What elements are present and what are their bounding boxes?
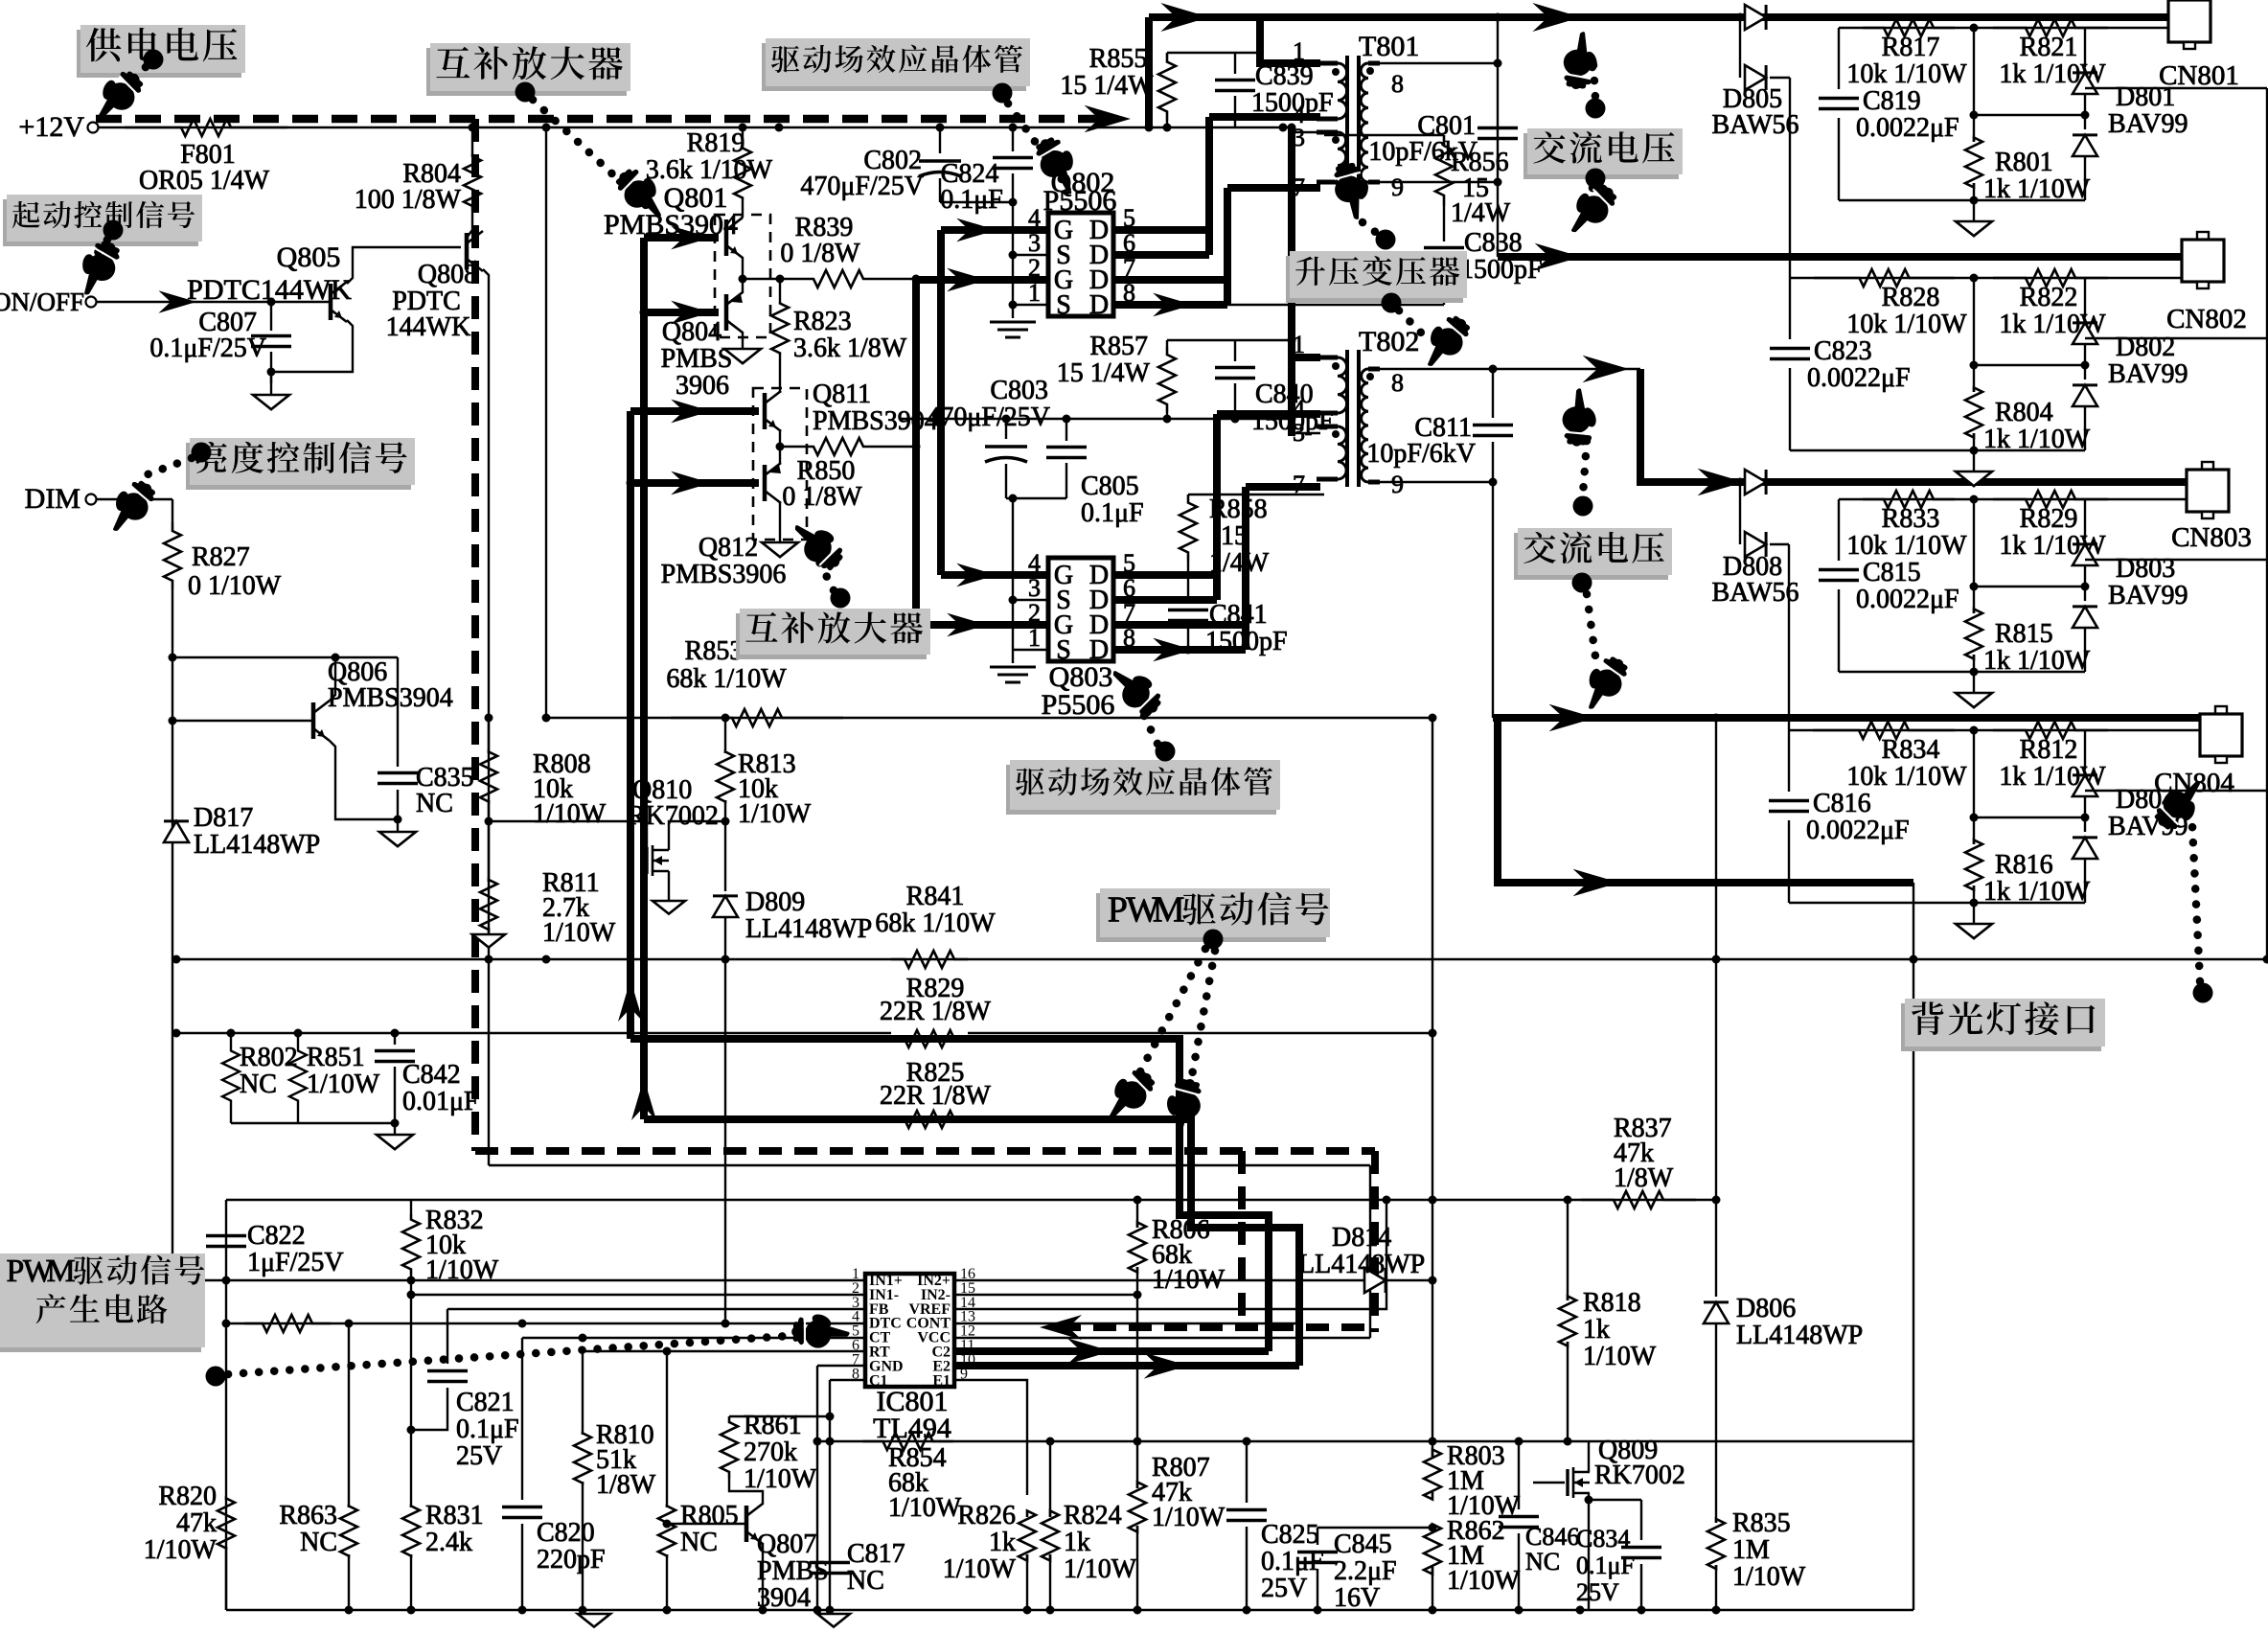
resistor R858 (1187, 494, 1189, 498)
resistor R833 (1863, 491, 1955, 508)
wire Q805 emitter (271, 320, 353, 372)
wire VCC feed horizontal (489, 1164, 1370, 1166)
svg-text:R817: R817 (1882, 33, 1940, 62)
resistor R807 (1136, 1295, 1138, 1488)
wire DIM column (172, 589, 173, 1280)
wire Q806 base (172, 720, 313, 722)
wire pin14 VREF (954, 1200, 1386, 1309)
svg-text:NC: NC (847, 1566, 884, 1596)
svg-text:R857: R857 (1089, 332, 1148, 361)
wire CN802 feed (1498, 253, 2182, 261)
capacitor C820 (521, 1338, 523, 1500)
wire pin5 CT (522, 1337, 865, 1339)
wire Q805 collector (347, 247, 461, 284)
svg-text:M: M (47, 1253, 76, 1289)
hand 8 (786, 510, 853, 577)
svg-text:C821: C821 (456, 1388, 515, 1417)
svg-text:CN802: CN802 (2166, 304, 2247, 334)
node leader dot 2 (515, 82, 536, 103)
svg-text:Q807: Q807 (757, 1529, 816, 1559)
wire x1791 up (1715, 718, 1717, 1200)
svg-text:Q808: Q808 (418, 260, 477, 289)
transistor Q811 (763, 393, 767, 429)
diode D808 upper (1745, 470, 1766, 494)
node sense CN801 (1970, 24, 1979, 33)
wire +12V dashed bus arrow (1085, 105, 1131, 133)
resistor R861 (721, 1416, 738, 1478)
svg-text:PMBS3906: PMBS3906 (661, 560, 787, 589)
wire rail y1078 (176, 1032, 1432, 1034)
transistor Q807 (745, 1506, 749, 1542)
transistor Q810 RK7002 (645, 847, 648, 874)
svg-text:R820: R820 (158, 1482, 217, 1511)
svg-text:R815: R815 (1995, 619, 2053, 649)
node Q806 col wire (172, 656, 398, 658)
svg-text:S: S (1056, 290, 1071, 320)
capacitor C834 (1640, 1500, 1642, 1540)
capacitor C842 (394, 1033, 396, 1045)
svg-text:BAV99: BAV99 (2108, 359, 2188, 389)
ground Q803 S (990, 666, 1036, 669)
wire pin16 IN2+ (954, 1279, 1432, 1281)
svg-text:1/10W: 1/10W (1064, 1554, 1137, 1584)
resistor R829 (1993, 491, 2108, 508)
resistor R824 (1049, 1441, 1051, 1517)
wire exit CN804 (2085, 790, 2267, 792)
leader 7a (1593, 65, 1595, 98)
resistor R820 (225, 1323, 227, 1500)
svg-text:PMBS3904: PMBS3904 (328, 683, 453, 713)
hand 11a (1560, 387, 1601, 448)
svg-text:R863: R863 (279, 1501, 337, 1530)
svg-text:R833: R833 (1882, 504, 1940, 534)
wire drive bus A (640, 238, 648, 1119)
label 互补放大器 mid (736, 613, 927, 659)
hand 2 (609, 160, 676, 227)
svg-text:P: P (7, 1253, 25, 1289)
resistor R839 (800, 270, 877, 287)
svg-text:C803: C803 (990, 376, 1048, 405)
wire S ground column (1012, 202, 1014, 318)
svg-text:LL4148WP: LL4148WP (1298, 1250, 1425, 1279)
wire C803 C805 bottom (1006, 497, 1066, 499)
wire drive col G2 (912, 280, 920, 625)
svg-text:0.01μF: 0.01μF (402, 1087, 479, 1116)
svg-text:D802: D802 (2116, 333, 2175, 362)
svg-text:R801: R801 (1995, 148, 2053, 177)
node sense CN803 (1970, 495, 1979, 504)
svg-text:0 1/8W: 0 1/8W (782, 482, 862, 512)
transformer T802 primary lower (1338, 426, 1346, 479)
wire drive thick right1 (630, 1039, 1269, 1351)
transistor Q806 (311, 702, 316, 739)
svg-text:R861: R861 (744, 1411, 802, 1440)
svg-text:R822: R822 (2020, 283, 2078, 312)
label 交流电压 low (1514, 533, 1668, 580)
capacitor C835 (397, 657, 399, 767)
svg-text:15: 15 (1221, 521, 1248, 551)
hand 7b (1556, 175, 1623, 242)
svg-text:D814: D814 (1332, 1223, 1391, 1253)
diode D805 lower (1745, 65, 1766, 90)
svg-text:1k: 1k (1583, 1315, 1610, 1345)
svg-text:R823: R823 (793, 307, 852, 336)
resistor R822 (1993, 269, 2108, 287)
capacitor C805 (1065, 419, 1067, 441)
resistor R817 (1863, 19, 1955, 36)
node leader dot 6a (1376, 230, 1396, 250)
wire D805 out col (1789, 78, 1791, 278)
wire D808 anodes (1739, 482, 1741, 544)
wire y1380 left (225, 1322, 227, 1324)
label 升压变压器 (1286, 256, 1463, 303)
diode D803 lower (2084, 565, 2086, 601)
resistor R801 (1973, 28, 1975, 142)
ic Q803 P5506 box (1048, 558, 1113, 661)
resistor R819 (742, 127, 744, 147)
arrow drive B up (618, 979, 643, 1022)
wire rail y749 (546, 717, 1432, 719)
transistor Q804 (724, 294, 729, 331)
transformer T801 secondary (1361, 63, 1368, 182)
svg-text:9: 9 (1391, 173, 1404, 201)
wire mid CN803 (1974, 586, 2085, 587)
svg-text:C805: C805 (1081, 471, 1139, 501)
svg-text:1M: 1M (1732, 1535, 1770, 1565)
svg-text:0.0022μF: 0.0022μF (1807, 363, 1911, 393)
svg-text:0.1μF/25V: 0.1μF/25V (149, 333, 266, 363)
svg-text:Q804: Q804 (662, 317, 722, 347)
patch R825 (891, 1112, 968, 1127)
box Q811/Q812 dashed (753, 388, 807, 540)
node leader dot 12 (2193, 983, 2213, 1003)
ground rail 2 (817, 1614, 850, 1627)
wire exit CN801 (2085, 87, 2267, 89)
capacitor C811 (1492, 369, 1494, 418)
hand 10b (1157, 1074, 1206, 1139)
diode D801 upper (2084, 28, 2086, 67)
wire Q804 collector (742, 332, 744, 349)
svg-text:1/10W: 1/10W (144, 1535, 218, 1565)
hand 6a (1328, 158, 1378, 223)
wire Q810 source (668, 871, 670, 901)
svg-text:1/10W: 1/10W (533, 799, 607, 829)
resistor R837 (1581, 1191, 1696, 1208)
svg-text:1/8W: 1/8W (596, 1470, 656, 1500)
wire Q801-Q804 emitters (742, 257, 744, 293)
wire C842 tie (231, 1122, 395, 1124)
svg-text:T802: T802 (1359, 326, 1419, 357)
svg-text:OR05 1/4W: OR05 1/4W (139, 166, 270, 195)
wire x570 column (545, 127, 547, 718)
svg-text:R841: R841 (906, 882, 965, 911)
wire ON/OFF (96, 301, 331, 303)
label PWM驱动信号 (1096, 893, 1326, 942)
wire pin6 RT (583, 1350, 865, 1352)
svg-text:R805: R805 (680, 1501, 739, 1530)
wire Q803 pin4 in (941, 571, 1048, 579)
wire CN803 feed (1640, 369, 2187, 482)
svg-text:25V: 25V (456, 1441, 502, 1471)
resistor R863 (348, 1323, 350, 1507)
svg-text:3906: 3906 (676, 371, 729, 401)
wire Q807 emitter (762, 1543, 764, 1610)
wire sense CN804 (1789, 729, 2200, 731)
svg-text:NC: NC (240, 1069, 277, 1099)
wire Q808 emitter (483, 269, 489, 1165)
resistor R816 (1973, 730, 1975, 844)
wire C840 bottom rail (901, 418, 1292, 420)
node leader dot 11b (1572, 573, 1592, 593)
wire D808 out col (1788, 544, 1790, 730)
hand 1 (82, 62, 149, 129)
svg-text:470μF/25V: 470μF/25V (800, 172, 924, 201)
wire pin8 C1 (830, 1379, 865, 1381)
svg-text:R819: R819 (687, 128, 745, 158)
wire pin15 IN2- (954, 1294, 1137, 1296)
resistor R850 (800, 438, 877, 455)
leader 9 (1136, 700, 1157, 744)
capacitor C841 (1168, 609, 1208, 612)
resistor RDTC (244, 1315, 331, 1332)
resistor R803 (1424, 1450, 1441, 1500)
svg-text:68k 1/10W: 68k 1/10W (666, 664, 787, 694)
svg-text:R834: R834 (1882, 735, 1940, 765)
transistor Q805 (329, 284, 333, 320)
svg-text:P5506: P5506 (1043, 185, 1117, 217)
svg-text:C834: C834 (1576, 1525, 1630, 1552)
hand 12 (2148, 772, 2215, 839)
wire sense CN803 (1839, 498, 2187, 500)
svg-text:1/10W: 1/10W (738, 799, 812, 829)
svg-text:10k 1/10W: 10k 1/10W (1846, 59, 1967, 89)
wire T802 pin3 stub (1292, 432, 1320, 434)
leader 12 (2192, 826, 2200, 981)
svg-text:LL4148WP: LL4148WP (745, 914, 872, 944)
wire mid CN802 (1974, 364, 2085, 366)
transformer T801 core (1345, 56, 1349, 190)
svg-text:R804: R804 (1995, 398, 2053, 427)
wire box left x236 (225, 1200, 227, 1610)
ground CN801 (1973, 200, 1975, 221)
svg-text:1/10W: 1/10W (888, 1493, 962, 1523)
wire cap bottoms (940, 201, 1013, 203)
svg-text:PMBS: PMBS (661, 344, 733, 374)
ic Q802 P5506 box (1048, 213, 1113, 316)
resistor R810 (582, 1351, 584, 1435)
arrow T802 top out (1583, 356, 1629, 383)
svg-text:BAV99: BAV99 (2108, 581, 2188, 610)
svg-text:10pF/6kV: 10pF/6kV (1366, 439, 1476, 469)
wire Q803 D56 out (1113, 571, 1217, 579)
ground CN803 (1973, 672, 1975, 693)
ground Q802 S (990, 321, 1036, 324)
resistor R834 (1813, 722, 1955, 739)
connector CN802 (2197, 232, 2209, 240)
label 互补放大器 top (426, 48, 627, 96)
svg-text:CN801: CN801 (2159, 60, 2239, 91)
svg-text:1k: 1k (989, 1528, 1016, 1557)
wire x1495 column (1432, 718, 1433, 1457)
svg-text:PDTC144WK: PDTC144WK (187, 274, 352, 306)
leader 3 (1008, 103, 1064, 182)
capacitor C819 (1838, 28, 1840, 89)
svg-text:1/10W: 1/10W (1152, 1503, 1226, 1532)
svg-text:BAV99: BAV99 (2108, 109, 2188, 139)
patch R829 (891, 1031, 968, 1046)
box Q801/Q804 dashed (715, 215, 770, 337)
svg-text:TL494: TL494 (873, 1413, 951, 1444)
svg-text:0.0022μF: 0.0022μF (1856, 585, 1959, 614)
wire pin1 IN1+ (176, 1279, 865, 1281)
wire rail y1001 (176, 958, 2267, 960)
wire pin10 E2 thick (954, 1362, 1299, 1369)
capacitor C824 (1012, 127, 1014, 151)
ground Q812 (762, 542, 798, 557)
svg-text:0.1μF: 0.1μF (940, 185, 1003, 215)
svg-text:RK7002: RK7002 (1594, 1460, 1685, 1490)
resistor R808 (488, 718, 490, 753)
node leader dot 6b (1382, 293, 1402, 313)
svg-text:144WK: 144WK (386, 312, 471, 342)
svg-text:BAW56: BAW56 (1711, 110, 1798, 140)
diode D801 lower (2084, 94, 2086, 129)
svg-text:C846: C846 (1525, 1523, 1579, 1551)
node leader dot 5 (192, 443, 212, 463)
svg-text:0.1μF: 0.1μF (456, 1414, 519, 1444)
svg-text:1/8W: 1/8W (1614, 1163, 1674, 1193)
resistor R829b (891, 1030, 968, 1047)
ground C842 (394, 1123, 396, 1135)
wire Q804 base stub (644, 309, 719, 316)
ground Q804 (724, 349, 761, 363)
leader 11a (1583, 441, 1587, 494)
resistor R854 (862, 1433, 953, 1450)
hand 10a (1094, 1061, 1161, 1128)
node leader dot 13 (206, 1367, 226, 1387)
wire Q802 pin1 (1013, 304, 1048, 306)
svg-text:C819: C819 (1863, 86, 1921, 116)
label PWM驱动信号产生电路 (0, 1258, 201, 1352)
svg-text:D: D (1089, 290, 1109, 320)
node leader dot 8 (831, 588, 851, 609)
wire Q810 gate (489, 820, 647, 822)
svg-text:R826: R826 (957, 1501, 1016, 1530)
svg-text:P: P (1108, 890, 1128, 931)
resistor R804 (1973, 278, 1975, 392)
svg-text:9: 9 (1391, 471, 1404, 498)
hand 3 (1029, 129, 1089, 197)
terminal +12V (88, 123, 99, 133)
wire exit CN802 (2085, 337, 2267, 339)
svg-text:15 1/4W: 15 1/4W (1060, 71, 1154, 101)
wire Q803 D78 out (1113, 621, 1246, 629)
wire dashed branch vertical (471, 119, 479, 1151)
leader 10b (1188, 951, 1215, 1096)
svg-text:R812: R812 (2020, 735, 2078, 765)
wire mid CN801 (1974, 114, 2085, 116)
wire right col CN802 feed (1497, 17, 1499, 257)
svg-text:R835: R835 (1732, 1508, 1791, 1538)
svg-text:3.6k 1/10W: 3.6k 1/10W (646, 155, 773, 185)
leader 8 (816, 556, 834, 590)
leader 10a (1138, 949, 1205, 1075)
capacitor C816 (1788, 730, 1790, 792)
svg-text:R855: R855 (1089, 44, 1148, 74)
resistor R821 (1993, 19, 2108, 36)
wire bottom rail (226, 1609, 1913, 1611)
svg-text:R831: R831 (425, 1501, 484, 1530)
svg-text:1/10W: 1/10W (1152, 1265, 1226, 1295)
wire VCC feed down (1369, 1165, 1371, 1338)
wire dashed to VCC (1058, 1323, 1375, 1331)
wire T801 pin1 feed (1145, 17, 1153, 127)
svg-text:10pF/6kV: 10pF/6kV (1368, 137, 1478, 167)
wire bottom CN803 (1839, 671, 2085, 673)
wire drive bus B (627, 411, 634, 1039)
resistor R828 (1814, 269, 1955, 287)
wire R808-R811 (488, 800, 490, 882)
svg-text:22R 1/8W: 22R 1/8W (880, 1081, 991, 1111)
leader 13 (228, 1334, 816, 1374)
svg-text:68k 1/10W: 68k 1/10W (875, 908, 996, 938)
wire Q812 collector (779, 502, 781, 542)
wire mid CN804 (1974, 816, 2085, 818)
svg-text:D809: D809 (745, 887, 805, 917)
svg-text:R821: R821 (2020, 33, 2078, 62)
transformer T801 primary upper (1338, 63, 1347, 119)
node leader dot 9 (1156, 742, 1176, 762)
svg-text:+12V: +12V (18, 111, 84, 143)
svg-text:C820: C820 (537, 1518, 595, 1548)
wire pin9 E1 (954, 1380, 1027, 1495)
wire dashed branch horizontal (475, 1147, 1375, 1155)
hand 4 (66, 233, 126, 301)
wire C838 bottom (1227, 304, 1444, 306)
svg-text:22R 1/8W: 22R 1/8W (880, 997, 991, 1026)
resistor R805 (666, 1351, 668, 1507)
connector CN803 (2202, 462, 2213, 470)
diode D804 upper (2084, 730, 2086, 770)
svg-text:CN803: CN803 (2171, 522, 2252, 553)
wire drive col G4 (937, 230, 945, 575)
resistor R823 (779, 279, 781, 302)
leader 5 (140, 458, 192, 477)
svg-text:1/10W: 1/10W (1447, 1566, 1521, 1596)
resistor R855 (1166, 115, 1168, 127)
terminal DIM (86, 494, 97, 505)
wire Q810 drain (669, 821, 725, 850)
wire sense CN801 (1839, 27, 2168, 29)
resistor R815 (1973, 499, 1975, 613)
wire pin12 VCC (954, 1337, 1370, 1339)
resistor R831 (402, 1506, 420, 1556)
ic IC801 TL494 box (865, 1274, 954, 1387)
wire T801 sec bot (1373, 181, 1498, 183)
svg-text:D817: D817 (194, 803, 253, 833)
svg-text:C822: C822 (247, 1221, 306, 1251)
wire y1504 rail (817, 1440, 1913, 1442)
wire sense CN802 (1790, 277, 2182, 279)
wire Q802 pin2 in (916, 276, 1048, 284)
resistor R856 (1324, 134, 1444, 136)
wire T802 pin1 feed (1292, 354, 1320, 361)
node leader dot 10 (1203, 930, 1224, 950)
svg-text:1: 1 (1293, 37, 1305, 65)
svg-text:DIM: DIM (25, 483, 80, 515)
wire Q812 base stub (630, 479, 759, 487)
resistor R826 (1026, 1495, 1028, 1517)
